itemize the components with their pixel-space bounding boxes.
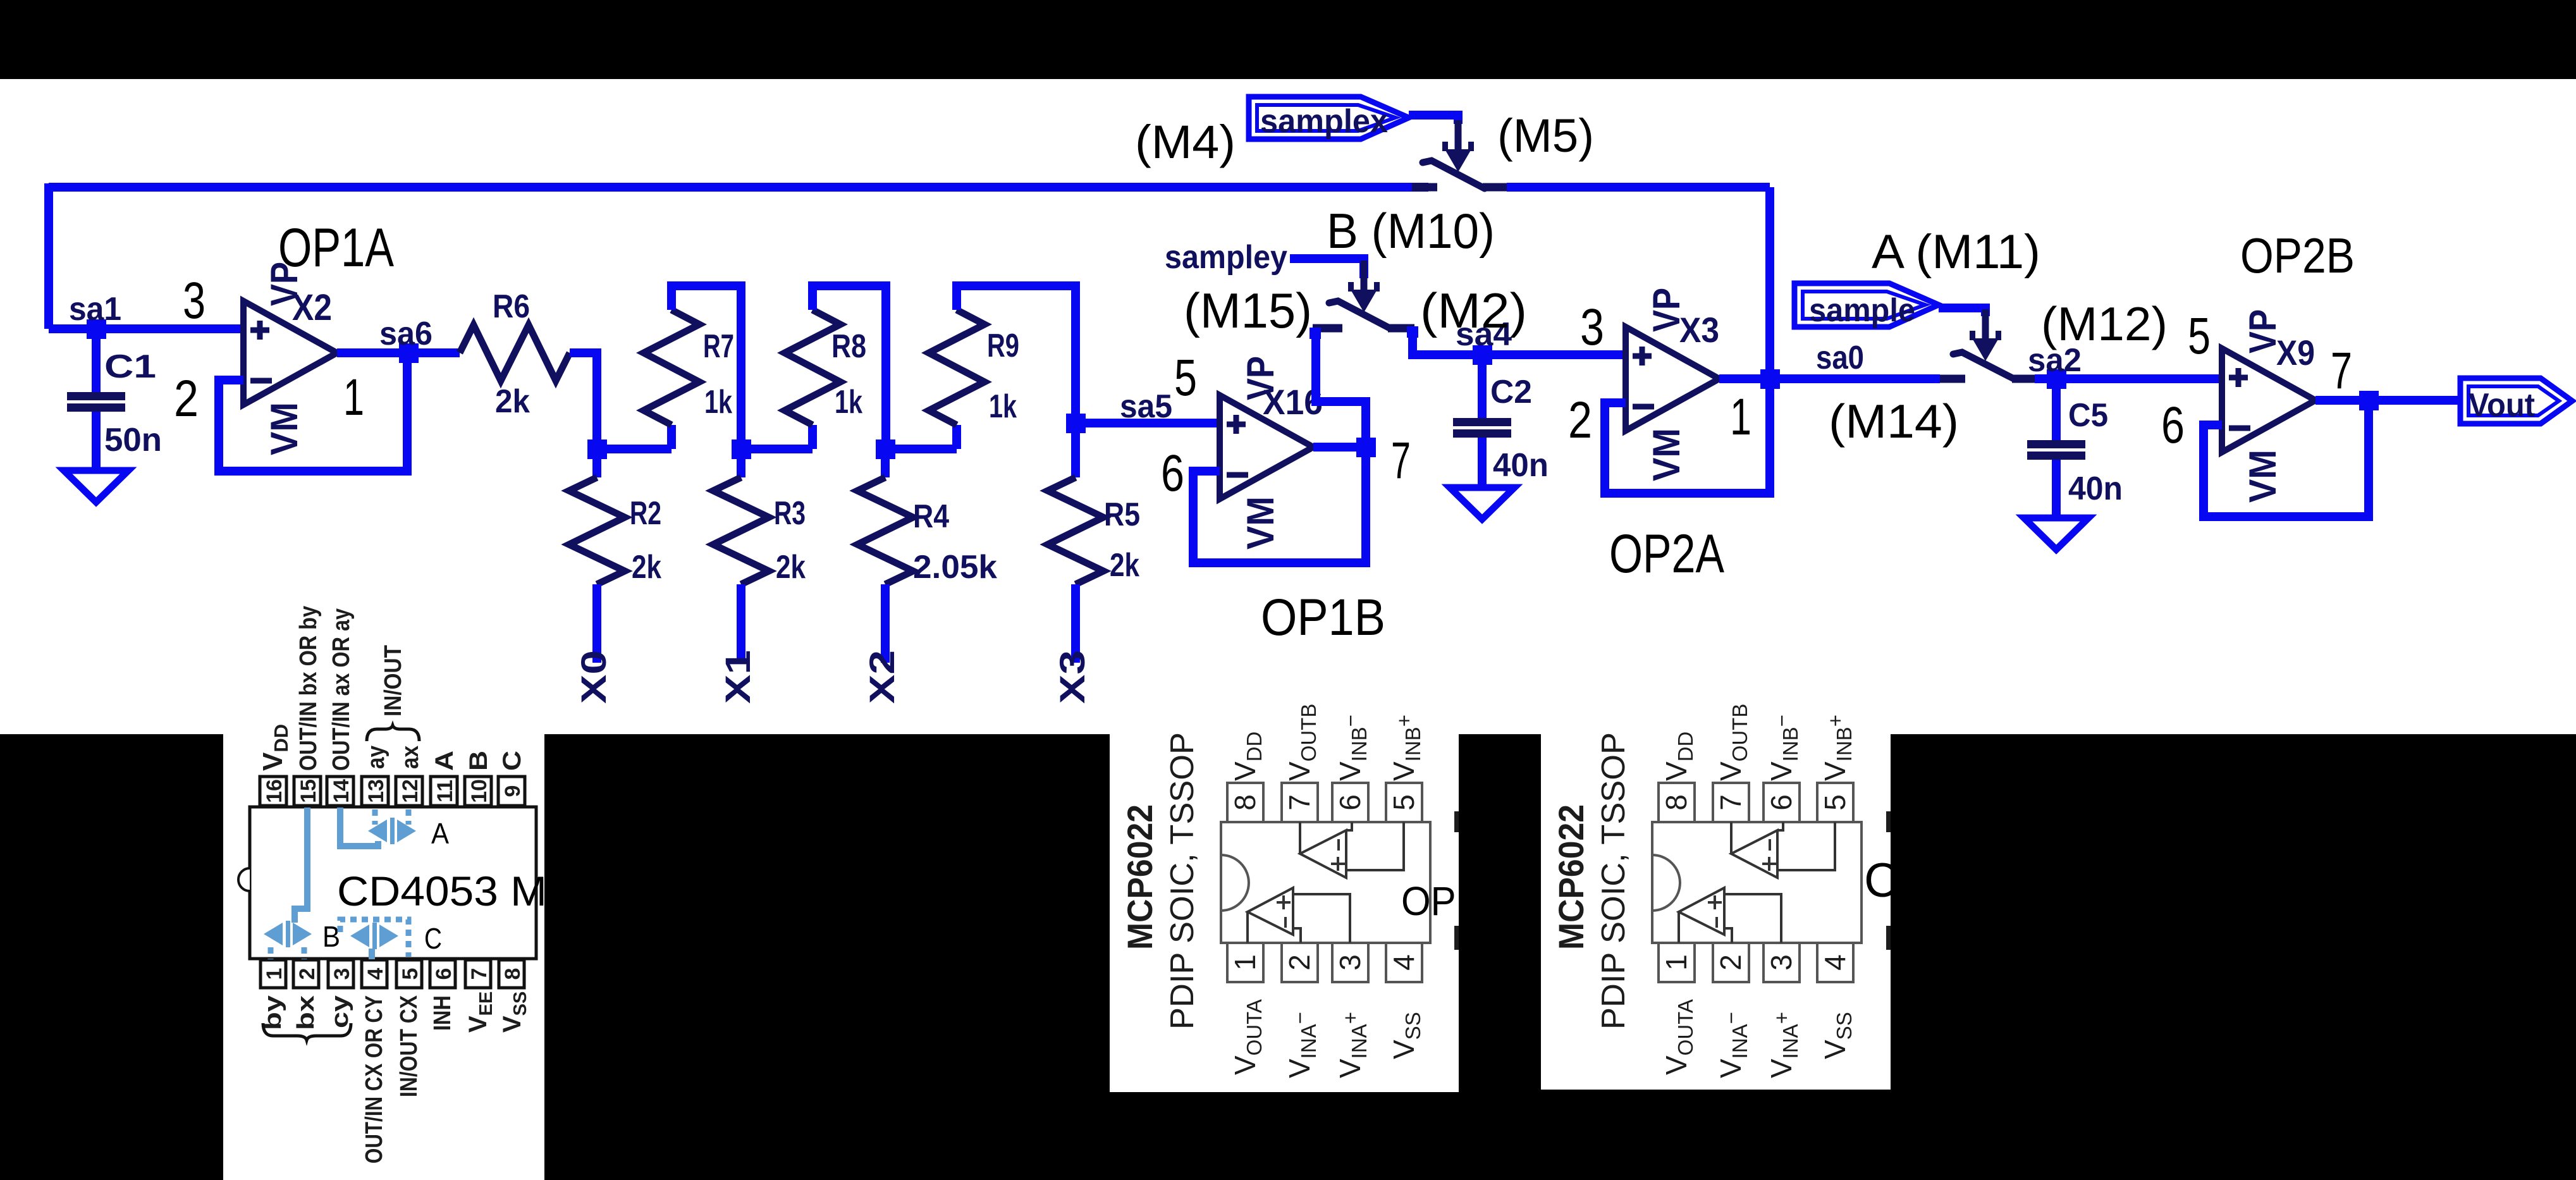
svg-text:VM: VM	[263, 402, 305, 455]
switch M10 actuator arrow	[1348, 261, 1380, 312]
op-amp U OP2A X3 triangle	[1626, 327, 1719, 431]
MCP6022 panel 2 pin 6 box	[1763, 783, 1800, 822]
wire sa0 run to switch M14	[1770, 374, 1940, 383]
svg-text:3: 3	[1580, 298, 1604, 356]
svg-text:8: 8	[501, 968, 525, 980]
wire R5 to X3 terminal	[1071, 584, 1080, 663]
CD4053 pin 5 box	[396, 960, 422, 988]
svg-text:A (M11): A (M11)	[1872, 225, 2040, 279]
wire C1 to ground	[92, 412, 101, 470]
svg-text:7: 7	[1714, 794, 1747, 811]
svg-text:4: 4	[1819, 954, 1851, 971]
MCP6022 white panel 2	[1541, 734, 1891, 1090]
net flag samplex	[1249, 97, 1409, 139]
MCP6022 panel 2 op-amp A symbol	[1679, 888, 1724, 935]
svg-text:2: 2	[1283, 954, 1316, 971]
svg-text:X9: X9	[2276, 333, 2315, 372]
resistor R6	[460, 325, 570, 381]
svg-text:IN/OUT: IN/OUT	[380, 645, 407, 716]
svg-text:1: 1	[1229, 954, 1261, 971]
svg-text:1: 1	[343, 369, 364, 426]
svg-text:R5: R5	[1104, 496, 1140, 533]
svg-text:4: 4	[1387, 954, 1420, 971]
svg-text:X2: X2	[292, 287, 332, 328]
svg-text:VM: VM	[1239, 496, 1282, 550]
CD4053 body notch	[238, 868, 250, 891]
svg-text:6: 6	[1765, 794, 1798, 811]
switch lever B (M10)	[1329, 301, 1390, 328]
svg-text:C5: C5	[2068, 397, 2108, 434]
resistor R3	[713, 477, 769, 584]
svg-text:16: 16	[262, 779, 286, 803]
CD4053 brace over ay ax	[367, 725, 419, 741]
svg-text:7: 7	[1283, 794, 1316, 811]
svg-text:INH: INH	[429, 995, 456, 1031]
switch M5 actuator arrow	[1442, 120, 1474, 172]
svg-text:1: 1	[262, 968, 286, 980]
svg-text:9: 9	[501, 785, 525, 797]
node sa1 junction	[87, 319, 106, 339]
wire samplex flag to switch arrow	[1409, 115, 1458, 124]
resistor R4	[857, 477, 913, 584]
svg-text:R4: R4	[913, 498, 949, 535]
node sa6 junction	[399, 343, 419, 363]
svg-text:6: 6	[432, 968, 456, 980]
node sa4 junction	[1473, 345, 1492, 365]
wire OP1A feedback loop	[219, 353, 407, 471]
svg-text:1: 1	[1660, 954, 1693, 971]
resistor R5	[1048, 477, 1103, 584]
wire n1 to R7	[597, 445, 672, 453]
svg-text:12: 12	[398, 779, 422, 803]
svg-text:R2: R2	[630, 495, 661, 532]
CD4053 pin 2 box	[293, 960, 319, 988]
svg-text:OP2A: OP2A	[1609, 524, 1725, 584]
CD4053 dashed bracket around mux C	[340, 919, 408, 957]
wire OP2B feedback loop	[2204, 400, 2369, 517]
wire sa1 to OP1A noninverting input	[49, 324, 243, 333]
svg-text:7: 7	[1391, 432, 1411, 489]
svg-text:R6: R6	[493, 288, 530, 325]
op-amp U OP2B X9 triangle	[2222, 348, 2315, 452]
wire OP1B output up to switch M15 contact	[1316, 328, 1366, 447]
clipped glyph slivers panel 1 edge	[1454, 811, 1459, 832]
svg-text:X0: X0	[573, 650, 613, 704]
wire left feedback drop	[44, 183, 53, 329]
svg-text:(M14): (M14)	[1829, 395, 1959, 448]
top black bar	[0, 0, 2576, 79]
node sa0 junction	[1760, 369, 1780, 389]
CD4053 analog mux symbol C	[350, 923, 398, 949]
svg-text:11: 11	[433, 780, 457, 802]
op-amp U OP2A X3 minus input mark	[1633, 404, 1654, 410]
wire OP1B output	[1313, 443, 1366, 452]
wire OP2B output to Vout	[2315, 396, 2460, 405]
svg-text:2k: 2k	[776, 549, 806, 586]
svg-text:8: 8	[1229, 794, 1261, 811]
svg-text:C: C	[498, 751, 526, 771]
wire switch M2 to sa4 and OP2A input	[1413, 328, 1626, 355]
wire OP2A output	[1719, 374, 1770, 383]
svg-text:1k: 1k	[989, 388, 1017, 425]
svg-text:R3: R3	[774, 495, 806, 532]
svg-text:2.05k: 2.05k	[913, 549, 997, 586]
node OP2B output node junction	[2359, 391, 2379, 410]
svg-text:B: B	[322, 920, 340, 953]
MCP6022 panel 1 body notch	[1221, 855, 1249, 911]
MCP6022 panel 2 pin 5 box	[1817, 783, 1853, 822]
switch M2 right contact	[1388, 324, 1414, 333]
MCP6022 panel 2 pin 2 box	[1713, 943, 1749, 982]
MCP6022 panel 2 op-amp B symbol	[1731, 830, 1777, 878]
svg-text:C1: C1	[104, 348, 156, 385]
svg-text:5: 5	[1174, 349, 1197, 407]
net flag Vout	[2460, 378, 2572, 424]
switch lever M5	[1423, 161, 1485, 188]
node ladder n2 junction	[732, 439, 751, 459]
switch M4 left contact	[1412, 183, 1437, 192]
MCP6022 panel 1 op-amp A wires	[1248, 894, 1350, 943]
CD4053 pin 8 box	[499, 960, 525, 988]
MCP6022 panel 1 pin 7 box	[1282, 783, 1318, 822]
wire OP1A output to R6	[337, 348, 460, 357]
ground below C2	[1450, 488, 1514, 519]
clipped glyph slivers panel 2 edge	[1886, 811, 1891, 832]
svg-text:R8: R8	[831, 328, 866, 365]
svg-text:OP1B: OP1B	[1261, 589, 1385, 646]
op-amp U OP1B X16 plus input mark	[1227, 415, 1246, 434]
wire rail drop to sa0	[1765, 187, 1774, 379]
node ladder n3 junction	[876, 439, 895, 459]
svg-text:OUT/IN ax OR ay: OUT/IN ax OR ay	[328, 608, 355, 771]
CD4053 white panel	[223, 734, 544, 1180]
MCP6022 panel 1 pin 3 box	[1332, 943, 1368, 982]
MCP6022 panel 2 pin 7 box	[1713, 783, 1749, 822]
wire R8 bottom stub	[808, 425, 817, 449]
CD4053 pin 16 box	[260, 777, 286, 806]
svg-text:VM: VM	[2242, 450, 2284, 503]
svg-text:13: 13	[364, 779, 388, 803]
net flag sample	[1794, 283, 1939, 327]
wire R8 bridge to n3	[813, 286, 886, 449]
bottom black region	[0, 734, 2576, 1180]
MCP6022 panel 1 pin 6 box	[1332, 783, 1368, 822]
CD4053 brace under by bx cy	[263, 1023, 351, 1040]
svg-text:6: 6	[1161, 445, 1184, 502]
op-amp U OP2B X9 plus input mark	[2229, 368, 2248, 387]
CD4053 pin 10 box	[465, 777, 491, 806]
resistor R9	[929, 310, 984, 425]
svg-text:14: 14	[329, 779, 353, 803]
MCP6022 panel 2 pin 1 box	[1659, 943, 1695, 982]
svg-text:ax: ax	[397, 746, 424, 769]
MCP6022 panel 2 pin 4 box	[1817, 943, 1853, 982]
svg-text:bx: bx	[293, 995, 319, 1030]
svg-text:A: A	[431, 751, 458, 771]
CD4053 pin 9 box	[498, 777, 525, 806]
svg-text:5: 5	[2188, 307, 2211, 365]
resistor R8	[785, 310, 840, 425]
svg-text:X1: X1	[718, 650, 757, 704]
op-amp U OP1A X2 minus input mark	[250, 378, 272, 384]
node sa5 junction	[1066, 414, 1086, 433]
svg-text:5: 5	[398, 968, 422, 980]
svg-text:sa1: sa1	[69, 291, 121, 328]
MCP6022 panel 2 pin 8 box	[1659, 783, 1695, 822]
svg-text:OUT/IN CX OR CY: OUT/IN CX OR CY	[361, 995, 388, 1164]
MCP6022 panel 1 op-amp A symbol	[1248, 888, 1293, 935]
wire R7 bottom stub	[667, 425, 676, 449]
MCP6022 panel 1 IC body outline	[1221, 822, 1430, 943]
op-amp U OP2A X3 plus input mark	[1633, 347, 1652, 366]
wire sa4 to C2	[1478, 355, 1487, 418]
MCP6022 white panel 1	[1110, 734, 1459, 1092]
node sa2 junction	[2047, 369, 2066, 389]
switch M11 actuator arrow	[1970, 309, 2001, 361]
svg-text:A: A	[431, 817, 449, 850]
svg-text:6: 6	[2161, 396, 2185, 454]
CD4053 analog mux symbol B	[264, 921, 312, 947]
MCP6022 panel 2 IC body outline	[1652, 822, 1861, 943]
CD4053 dashed stub to pin 1	[268, 947, 274, 959]
MCP6022 panel 1 pin 1 box	[1227, 943, 1263, 982]
svg-text:15: 15	[297, 779, 321, 803]
svg-text:2k: 2k	[632, 549, 661, 586]
svg-text:sampley: sampley	[1165, 239, 1287, 276]
switch M5 right contact	[1483, 183, 1507, 192]
CD4053 stub mux C to pin 4	[369, 949, 375, 959]
switch M15 left contact terminal	[1309, 328, 1321, 339]
CD4053 wire from pin 14 to mux A	[340, 808, 378, 846]
svg-text:2k: 2k	[495, 383, 530, 420]
capacitor C5	[2027, 440, 2085, 460]
wire n3 to R4	[881, 449, 890, 477]
svg-text:5: 5	[1387, 794, 1420, 811]
wire OP2A feedback loop	[1605, 379, 1770, 493]
node ladder n1 junction	[587, 439, 607, 459]
wire switch M12 to sa2 and OP2B input	[2035, 374, 2222, 383]
MCP6022 panel 2 op-amp B wires	[1731, 822, 1835, 870]
CD4053 dashed stub to pin 2	[302, 947, 307, 959]
svg-text:(M2): (M2)	[1420, 283, 1527, 338]
svg-text:samplex: samplex	[1260, 103, 1388, 140]
svg-text:MCP6022: MCP6022	[1551, 804, 1591, 950]
wire R9 bottom stub	[952, 425, 961, 449]
svg-text:R7: R7	[703, 328, 734, 365]
CD4053 pin 4 box	[362, 960, 388, 988]
CD4053 IC body	[250, 807, 536, 959]
svg-text:sa6: sa6	[379, 316, 432, 352]
svg-text:MCP6022: MCP6022	[1120, 804, 1160, 950]
svg-text:40n: 40n	[2068, 470, 2123, 507]
svg-text:sample: sample	[1809, 292, 1915, 329]
svg-text:IN/OUT CX: IN/OUT CX	[396, 995, 422, 1097]
MCP6022 panel 2 body notch	[1652, 855, 1680, 911]
svg-text:OUT/IN bx OR by: OUT/IN bx OR by	[295, 606, 322, 771]
svg-text:2: 2	[1568, 391, 1592, 449]
svg-text:1k: 1k	[704, 384, 732, 421]
wire R9 bridge to sa5	[957, 286, 1076, 423]
switch M15 left contact	[1313, 324, 1342, 333]
switch M2 right contact terminal	[1407, 326, 1418, 338]
wire R4 to X2 terminal	[881, 584, 890, 663]
CD4053 wire from pin 15 to mux B	[295, 808, 307, 923]
svg-text:OP2B: OP2B	[2240, 228, 2355, 283]
op-amp U OP1B X16 minus input mark	[1227, 472, 1248, 478]
op-amp U OP1A X2 plus input mark	[250, 321, 269, 340]
svg-text:(M4): (M4)	[1135, 116, 1236, 168]
ground below C5	[2024, 518, 2088, 550]
switch lever M14	[1953, 352, 2014, 379]
svg-text:X3: X3	[1679, 310, 1719, 350]
wire sample flag to switch arrow	[1939, 308, 1985, 316]
CD4053 pin 1 box	[261, 960, 286, 988]
svg-text:50n: 50n	[104, 422, 162, 458]
svg-text:3: 3	[183, 272, 205, 329]
MCP6022 panel 1 op-amp B wires	[1300, 822, 1404, 870]
wire sa5 to OP1B noninverting input	[1076, 419, 1220, 427]
MCP6022 panel 2 pin 3 box	[1763, 943, 1800, 982]
svg-text:CD4053 M: CD4053 M	[337, 868, 547, 914]
CD4053 pin 7 box	[465, 960, 491, 988]
svg-text:1: 1	[1730, 388, 1751, 446]
ground below C1	[64, 470, 128, 502]
svg-text:(M5): (M5)	[1497, 109, 1594, 162]
svg-text:3: 3	[1334, 954, 1366, 971]
capacitor C1	[67, 392, 125, 412]
svg-text:sa0: sa0	[1816, 340, 1864, 376]
svg-text:4: 4	[364, 968, 388, 980]
svg-text:B (M10): B (M10)	[1327, 203, 1495, 259]
wire R6 to ladder node1	[570, 353, 597, 449]
wire n1 to R2	[592, 449, 601, 477]
wire sa2 to C5	[2052, 379, 2061, 440]
wire C2 to ground	[1478, 438, 1487, 488]
MCP6022 panel 1 pin 5 box	[1386, 783, 1422, 822]
CD4053 pin 13 box	[362, 777, 388, 806]
wire C5 to ground	[2052, 460, 2061, 518]
svg-text:2k: 2k	[1110, 547, 1139, 584]
svg-text:VM: VM	[1645, 428, 1688, 481]
switch M14 left contact	[1940, 375, 1965, 383]
svg-text:2: 2	[295, 968, 319, 980]
svg-text:X3: X3	[1052, 650, 1092, 704]
svg-text:B: B	[465, 751, 493, 771]
op-amp U OP1B X16 triangle	[1220, 395, 1313, 499]
wire n2 to R8	[741, 445, 813, 453]
svg-text:PDIP SOIC, TSSOP: PDIP SOIC, TSSOP	[1595, 732, 1632, 1029]
CD4053 pin 14 box	[327, 777, 353, 806]
MCP6022 panel 1 pin 2 box	[1282, 943, 1318, 982]
svg-text:3: 3	[330, 968, 354, 980]
svg-text:3: 3	[1765, 954, 1798, 971]
MCP6022 panel 1 op-amp B symbol	[1300, 830, 1346, 878]
svg-text:5: 5	[1819, 794, 1851, 811]
svg-text:Vout: Vout	[2469, 387, 2535, 424]
svg-text:C2: C2	[1490, 374, 1532, 410]
resistor R2	[569, 477, 625, 584]
CD4053 pin 3 box	[328, 960, 354, 988]
switch M12 right contact	[2012, 375, 2035, 383]
wire sampley to switch arrow	[1290, 259, 1364, 278]
svg-text:10: 10	[467, 779, 491, 803]
node OP1B output node junction	[1356, 438, 1376, 457]
MCP6022 panel 1 pin 4 box	[1386, 943, 1422, 982]
wire R3 to X1 terminal	[737, 584, 745, 663]
capacitor C2	[1453, 418, 1511, 438]
CD4053 pin 6 box	[430, 960, 456, 988]
MCP6022 panel 1 pin 8 box	[1227, 783, 1263, 822]
svg-text:8: 8	[1660, 794, 1693, 811]
svg-text:7: 7	[467, 968, 491, 980]
svg-text:1k: 1k	[835, 384, 862, 421]
wire sa1 to C1	[92, 329, 101, 392]
wire OP1B feedback loop	[1193, 447, 1366, 563]
svg-text:(M15): (M15)	[1184, 283, 1312, 338]
wire n3 to R9	[885, 445, 957, 453]
svg-text:2: 2	[1714, 954, 1747, 971]
wire n2 to R3	[737, 449, 745, 477]
svg-text:6: 6	[1334, 794, 1366, 811]
svg-text:40n: 40n	[1493, 447, 1549, 484]
svg-text:C: C	[424, 922, 442, 955]
CD4053 pin 11 box	[431, 777, 457, 806]
svg-text:ay: ay	[363, 746, 389, 769]
wire sa5 to R5	[1071, 423, 1080, 477]
CD4053 dashed stub pin 12	[406, 809, 412, 825]
op-amp U OP1A X2 triangle	[243, 301, 337, 405]
wire feedback rail right segment	[1507, 183, 1770, 192]
MCP6022 panel 2 op-amp A wires	[1679, 894, 1781, 943]
svg-text:(M12): (M12)	[2041, 297, 2168, 350]
CD4053 pin 12 box	[396, 777, 422, 806]
CD4053 dashed stub pin 13	[372, 809, 378, 825]
op-amp U OP2B X9 minus input mark	[2229, 426, 2250, 431]
wire R2 to X0 terminal	[592, 584, 601, 663]
svg-text:PDIP SOIC, TSSOP: PDIP SOIC, TSSOP	[1164, 732, 1201, 1029]
svg-text:2: 2	[174, 370, 199, 427]
wire feedback rail left segment	[49, 183, 1428, 192]
wire R7 bridge to n2	[672, 286, 741, 449]
svg-text:R9: R9	[987, 328, 1019, 364]
CD4053 analog mux symbol A	[368, 818, 416, 844]
CD4053 pin 15 box	[294, 777, 321, 806]
svg-text:7: 7	[2331, 342, 2352, 400]
svg-text:X2: X2	[862, 650, 902, 704]
resistor R7	[644, 310, 699, 425]
